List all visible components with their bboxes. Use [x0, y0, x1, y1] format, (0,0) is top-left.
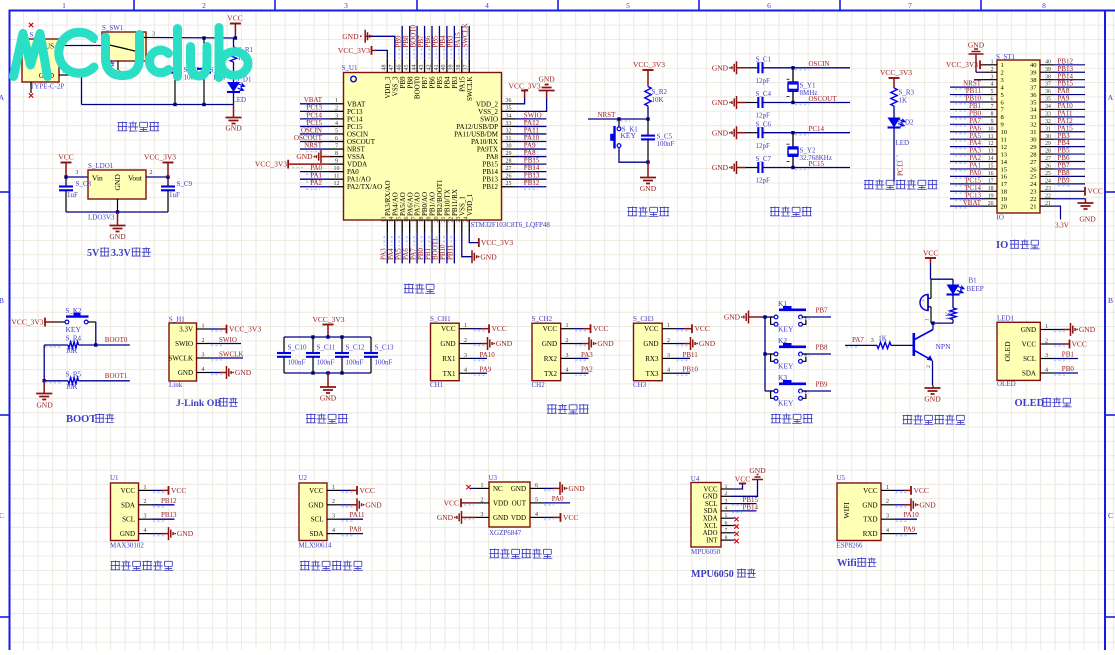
H1 pin1 wire to VCC_3V3: [210, 328, 219, 330]
svg-text:36: 36: [506, 98, 512, 104]
U1 pin 8 VSSA: [330, 156, 344, 158]
CH2 wire/net PA3: [574, 357, 589, 359]
svg-text:PB13: PB13: [161, 511, 177, 519]
U5 VCC flag: [895, 489, 905, 491]
wire/net PA7 (ST1 left): [950, 123, 984, 125]
svg-text:17: 17: [1001, 181, 1008, 188]
CH1 GND: [473, 343, 482, 345]
svg-text:NPN: NPN: [936, 342, 952, 351]
alarm ground: [932, 385, 934, 388]
caption 串口电路: [547, 404, 557, 414]
ST1 pin3 stub wire: [974, 79, 984, 81]
U5 wire/net PA9: [895, 533, 918, 535]
svg-text:35: 35: [506, 106, 512, 112]
svg-text:PB9: PB9: [816, 381, 829, 389]
svg-text:22: 22: [1030, 196, 1037, 203]
svg-text:100nF: 100nF: [317, 359, 335, 367]
svg-text:34: 34: [1045, 104, 1051, 110]
svg-text:12: 12: [334, 181, 340, 187]
wire/net PC13: [300, 110, 330, 112]
svg-text:26: 26: [506, 174, 512, 180]
svg-text:100nF: 100nF: [288, 359, 306, 367]
ST1 pin 16: [984, 175, 998, 177]
wire/net PA8 (ST1 right): [1054, 94, 1086, 96]
wire/net PB7 (ST1 right): [1054, 168, 1086, 170]
svg-text:4: 4: [1045, 367, 1048, 373]
module U4 MPU6050: [691, 483, 721, 548]
svg-text:46: 46: [397, 65, 403, 71]
U1 pin 5 OSCIN: [330, 133, 344, 135]
svg-text:1: 1: [332, 485, 335, 491]
wire/net PB13: [515, 178, 546, 180]
svg-text:PB9: PB9: [1058, 176, 1071, 184]
capacitor S_C10 100nF: [283, 337, 285, 353]
wire/net PA12: [515, 125, 546, 127]
svg-text:GND: GND: [320, 394, 337, 403]
svg-text:13: 13: [1001, 151, 1008, 158]
capacitor S_C13 100nF: [370, 337, 372, 353]
svg-text:S_CH2: S_CH2: [532, 315, 553, 323]
svg-text:12pF: 12pF: [756, 112, 771, 120]
wire/net PA5 (bottom): [401, 234, 403, 264]
capacitor S_C1 12pF: [732, 61, 737, 74]
svg-text:PA9: PA9: [904, 526, 916, 534]
svg-text:S_C11: S_C11: [317, 344, 336, 352]
module U2 MLX90614: [299, 483, 327, 541]
svg-text:3: 3: [1001, 77, 1004, 84]
svg-text:VCC_3V3: VCC_3V3: [946, 60, 978, 69]
svg-text:GND: GND: [511, 485, 526, 493]
wire/net PB1 (bottom): [431, 234, 433, 264]
header S_CH3 CH3: [634, 323, 663, 381]
svg-text:36: 36: [1045, 89, 1051, 95]
svg-text:RXD: RXD: [863, 530, 878, 538]
svg-text:SDA: SDA: [704, 508, 718, 515]
U2 wire/net PA8: [341, 533, 364, 535]
wire/net PC15: [300, 125, 330, 127]
module U3 XGZP6847 (pressure): [489, 482, 530, 527]
svg-text:GND: GND: [177, 529, 194, 538]
svg-text:GND: GND: [724, 313, 741, 322]
svg-text:GND: GND: [862, 501, 877, 509]
svg-text:2: 2: [202, 338, 205, 344]
svg-text:29: 29: [1045, 141, 1051, 147]
wire/net PB5 (ST1 right): [1054, 153, 1086, 155]
svg-text:3.3V: 3.3V: [111, 248, 132, 259]
U1 pin 6 OSCOUT: [330, 141, 344, 143]
svg-text:14: 14: [389, 217, 395, 223]
ST1 pin 39: [1040, 71, 1054, 73]
wire/net PB0 (ST1 left): [950, 116, 984, 118]
svg-text:32: 32: [506, 128, 512, 134]
svg-text:VCC_3V3: VCC_3V3: [255, 160, 287, 169]
svg-text:VCC: VCC: [644, 325, 659, 333]
svg-text:7: 7: [725, 528, 728, 534]
U1 bottom pin 13 PA3/RX/AO: [386, 220, 388, 234]
caption 心率检测模块: [111, 561, 121, 571]
MCU S_U1 STM32F103C8T6 LQFP48: [344, 73, 502, 221]
svg-text:CH3: CH3: [633, 381, 647, 389]
ST1 pin 5: [984, 94, 998, 96]
svg-text:OLED: OLED: [1015, 398, 1045, 409]
svg-text:GND: GND: [1079, 215, 1096, 224]
U1 VSS_2 pin35 to GND: [515, 98, 547, 111]
svg-text:10K: 10K: [66, 347, 78, 355]
wire/net OSCOUT: [300, 141, 330, 143]
svg-text:1uF: 1uF: [169, 191, 180, 199]
svg-text:Link: Link: [169, 381, 183, 389]
CH2 VCC flag: [574, 328, 583, 330]
svg-text:S_CH1: S_CH1: [430, 315, 451, 323]
svg-text:LED1: LED1: [997, 314, 1015, 322]
U1 pin 12 PA2/TX/AO: [330, 186, 344, 188]
svg-text:24: 24: [464, 217, 470, 223]
svg-text:21: 21: [1045, 201, 1051, 207]
connector S_T1 TYPE-C-2P: [22, 39, 59, 82]
svg-text:S_C13: S_C13: [375, 344, 395, 352]
reset ground: [647, 162, 649, 177]
svg-text:GND: GND: [712, 163, 729, 172]
svg-text:3: 3: [202, 352, 205, 358]
svg-text:PA2: PA2: [310, 179, 322, 187]
wire/net PB15: [515, 163, 546, 165]
svg-text:39: 39: [1045, 67, 1051, 73]
capacitor S_C7 12pF: [732, 161, 737, 174]
svg-text:32: 32: [1045, 119, 1051, 125]
svg-text:17: 17: [988, 178, 994, 184]
svg-text:S_C7: S_C7: [756, 155, 772, 163]
U1 pin 4 PC15: [330, 125, 344, 127]
svg-text:GND: GND: [538, 75, 555, 84]
caption 主芯片: [404, 284, 414, 294]
svg-text:16: 16: [988, 171, 994, 177]
svg-text:PC14: PC14: [809, 125, 825, 133]
U1 wire/net PB12: [152, 504, 175, 506]
wire/net PC14 (ST1 left): [950, 190, 984, 192]
wire/net PB12: [515, 186, 546, 188]
svg-text:19: 19: [426, 217, 432, 223]
svg-text:PA2/TX/AO: PA2/TX/AO: [347, 183, 382, 191]
pushbutton K2: [774, 352, 778, 356]
svg-text:OSCIN: OSCIN: [809, 60, 830, 68]
U5 GND: [895, 504, 905, 506]
svg-text:VCC: VCC: [309, 487, 324, 495]
svg-text:9: 9: [1001, 122, 1004, 129]
svg-text:3: 3: [335, 113, 338, 119]
svg-text:33: 33: [1030, 114, 1037, 121]
svg-text:1: 1: [335, 98, 338, 104]
U1 pin 25 PB12: [502, 186, 516, 188]
ST1 pin 13: [984, 153, 998, 155]
U1 top pin 46 PB9: [401, 59, 403, 73]
svg-text:U5: U5: [837, 474, 846, 482]
U1 pin 31 PA10/RX: [502, 141, 516, 143]
ST1 pin 2: [984, 71, 998, 73]
ST1 pin 15: [984, 168, 998, 170]
wire/net PA9 (ST1 right): [1054, 101, 1086, 103]
svg-text:3: 3: [991, 74, 994, 80]
wire/net SWCLK (top): [468, 26, 470, 59]
svg-text:7: 7: [991, 104, 994, 110]
svg-text:6: 6: [535, 483, 538, 489]
LED1 VCC flag: [1054, 343, 1064, 345]
header S_H1 Link: [169, 323, 197, 381]
svg-text:KEY: KEY: [621, 131, 637, 140]
svg-text:2: 2: [144, 499, 147, 505]
filter top rail: [284, 336, 371, 338]
svg-text:33: 33: [1045, 111, 1051, 117]
svg-text:12pF: 12pF: [756, 142, 771, 150]
wire/net NRST (ST1 left): [950, 86, 984, 88]
CH3 GND: [676, 343, 685, 345]
svg-text:GND: GND: [178, 369, 193, 377]
svg-text:ADO: ADO: [703, 530, 718, 537]
svg-text:35: 35: [1045, 97, 1051, 103]
svg-text:41: 41: [434, 65, 440, 71]
svg-text:VCC: VCC: [543, 325, 558, 333]
svg-text:PB7: PB7: [816, 307, 829, 315]
svg-text:45: 45: [404, 65, 410, 71]
svg-text:BOOT0: BOOT0: [105, 336, 128, 344]
svg-text:31: 31: [1045, 126, 1051, 132]
wire/net OSCIN: [793, 67, 850, 69]
U1 pin 7 NRST: [330, 148, 344, 150]
svg-text:6: 6: [725, 520, 728, 526]
svg-text:K1: K1: [778, 299, 787, 308]
svg-text:GND: GND: [643, 340, 658, 348]
svg-text:U1: U1: [110, 474, 119, 482]
svg-text:40: 40: [1045, 59, 1051, 65]
svg-text:6: 6: [335, 136, 338, 142]
svg-text:3: 3: [725, 498, 728, 504]
base wire / net PA7 with 1K resistor: [845, 344, 877, 346]
svg-text:MPU6050: MPU6050: [691, 569, 734, 580]
ST1 pin 21: [1040, 205, 1054, 207]
wire/net PC15: [793, 167, 850, 169]
svg-text:5: 5: [626, 1, 630, 10]
svg-text:1: 1: [991, 59, 994, 65]
ST1 pin 19: [984, 198, 998, 200]
svg-text:10K: 10K: [66, 383, 78, 391]
svg-text:5: 5: [535, 497, 538, 503]
svg-text:GND: GND: [342, 32, 359, 41]
svg-text:38: 38: [456, 65, 462, 71]
H1 pin3 wire/net SWCLK: [210, 357, 243, 359]
svg-text:PB12: PB12: [161, 497, 177, 505]
svg-text:Vin: Vin: [92, 174, 103, 183]
wire/net PC13 (run LED): [893, 128, 895, 183]
svg-text:GND: GND: [225, 124, 242, 133]
ST1 pin 25: [1040, 175, 1054, 177]
svg-text:21: 21: [441, 217, 447, 223]
U1 top pin 44 BOOT0: [416, 59, 418, 73]
U2 GND: [341, 504, 351, 506]
svg-text:13: 13: [382, 217, 388, 223]
svg-text:PB14: PB14: [743, 503, 759, 511]
wire K1 bottom: [619, 148, 648, 163]
ST1 pin 34: [1040, 108, 1054, 110]
svg-text:3: 3: [667, 353, 670, 359]
svg-text:1: 1: [202, 323, 205, 329]
U1 pin 32 PA11/USB/DM: [502, 133, 516, 135]
svg-text:13: 13: [988, 149, 994, 155]
svg-text:OUT: OUT: [512, 499, 527, 507]
U1 pin 2 PC13: [330, 110, 344, 112]
U1 top pin 39 PB3: [453, 59, 455, 73]
svg-text:2: 2: [335, 106, 338, 112]
U1 bottom pin 14 PA4/AO: [394, 220, 396, 234]
svg-text:25: 25: [506, 181, 512, 187]
svg-text:33: 33: [506, 121, 512, 127]
U1 GND: [152, 533, 162, 535]
svg-text:GND: GND: [493, 514, 508, 522]
U1 bottom pin 23 VSS_1: [461, 220, 463, 234]
svg-text:1: 1: [464, 323, 467, 329]
svg-text:42: 42: [426, 65, 432, 71]
svg-text:SCL: SCL: [705, 501, 717, 508]
svg-text:+: +: [922, 298, 925, 304]
svg-text:S_CH3: S_CH3: [633, 315, 654, 323]
ST1 pin 28: [1040, 153, 1054, 155]
svg-text:MAX30102: MAX30102: [110, 542, 144, 550]
svg-text:VCC: VCC: [227, 14, 242, 23]
svg-text:SWCLK: SWCLK: [466, 77, 474, 102]
svg-text:35: 35: [1030, 99, 1037, 106]
svg-text:25: 25: [1045, 171, 1051, 177]
svg-text:IO: IO: [996, 240, 1008, 251]
svg-text:29: 29: [506, 151, 512, 157]
svg-text:39: 39: [449, 65, 455, 71]
wire/net PA7 (bottom): [416, 234, 418, 264]
svg-text:K2: K2: [778, 336, 787, 345]
wire/net PB8: [804, 353, 807, 355]
LED1 GND: [1054, 329, 1064, 331]
svg-text:21: 21: [1030, 203, 1037, 210]
svg-text:6: 6: [991, 97, 994, 103]
T1 pin 2: [59, 74, 70, 76]
svg-text:23: 23: [1045, 186, 1051, 192]
svg-text:2: 2: [332, 499, 335, 505]
svg-text:Vout: Vout: [128, 174, 143, 183]
svg-text:1: 1: [481, 483, 484, 489]
svg-text:4: 4: [332, 528, 335, 534]
svg-text:1K: 1K: [878, 335, 887, 343]
svg-text:3: 3: [344, 1, 348, 10]
wire/net PA3 (ST1 left): [950, 153, 984, 155]
svg-text:SWIO: SWIO: [219, 336, 237, 344]
svg-text:PC13: PC13: [897, 160, 905, 176]
svg-text:B: B: [1108, 296, 1113, 305]
svg-text:S_R2: S_R2: [652, 88, 668, 96]
svg-text:XGZP6847: XGZP6847: [489, 529, 522, 537]
svg-text:4: 4: [991, 82, 994, 88]
svg-text:VCC: VCC: [121, 487, 136, 495]
svg-text:VCC_3V3: VCC_3V3: [481, 238, 513, 247]
svg-text:3: 3: [871, 338, 874, 344]
svg-text:CH2: CH2: [532, 381, 546, 389]
svg-text:3: 3: [332, 514, 335, 520]
U1 top pin 40 PB4: [446, 59, 448, 73]
U3 GND(3): [457, 511, 462, 524]
ST1 pin 11: [984, 138, 998, 140]
buttons ground: [744, 311, 749, 324]
svg-text:1uF: 1uF: [67, 191, 78, 199]
ST1 pin 10: [984, 131, 998, 133]
svg-text:100nF: 100nF: [346, 359, 364, 367]
svg-text:3: 3: [566, 353, 569, 359]
wire/net PA10: [515, 141, 546, 143]
svg-text:4: 4: [464, 368, 467, 374]
regulator S_LDO1 LDO3V3: [88, 170, 146, 199]
ST1 pin 14: [984, 161, 998, 163]
svg-text:PB8: PB8: [816, 344, 829, 352]
svg-text:19: 19: [1001, 196, 1008, 203]
capacitor S_C12 100nF: [341, 337, 343, 353]
svg-text:K3: K3: [778, 373, 787, 382]
header S_ST1 IO (2x20): [997, 60, 1040, 213]
svg-text:3.3V: 3.3V: [1055, 222, 1069, 230]
wire/net PC14: [793, 132, 850, 134]
svg-text:S_R4: S_R4: [66, 334, 82, 342]
button bus wire: [764, 317, 766, 391]
U4 pin 7 no-connect: [731, 532, 735, 534]
wire/net PA0: [300, 171, 330, 173]
svg-text:1K: 1K: [899, 97, 908, 105]
wire/net PA4 (bottom): [394, 234, 396, 264]
wire/net PB5 (top): [438, 26, 440, 59]
wire/net PB3 (ST1 right): [1054, 138, 1086, 140]
wire/net PB15 (ST1 right): [1054, 86, 1086, 88]
svg-text:10: 10: [334, 166, 340, 172]
svg-text:VCC: VCC: [1072, 340, 1087, 349]
svg-text:1: 1: [886, 485, 889, 491]
LED S_D2: [888, 118, 901, 128]
svg-text:2: 2: [926, 365, 932, 368]
ST1 pin 20: [984, 205, 998, 207]
wire/net PB6 (top): [431, 26, 433, 59]
svg-text:12pF: 12pF: [756, 177, 771, 185]
svg-text:5: 5: [335, 128, 338, 134]
svg-text:PB12: PB12: [482, 183, 498, 191]
svg-text:2: 2: [1045, 338, 1048, 344]
svg-text:8MHz: 8MHz: [800, 89, 818, 97]
ST1 pin 18: [984, 190, 998, 192]
module U5 ESP8266: [837, 483, 881, 541]
T1 shield pin with no-ERC cross: [30, 82, 32, 93]
svg-text:1: 1: [924, 318, 930, 321]
svg-text:GND: GND: [968, 41, 985, 50]
svg-text:11: 11: [988, 134, 994, 140]
svg-text:S_C6: S_C6: [756, 120, 772, 128]
pushbutton S_K1 KEY: [618, 119, 620, 127]
wire/net PC13 (ST1 left): [950, 198, 984, 200]
caption 声光报警电路: [903, 415, 913, 425]
svg-text:GND: GND: [1021, 326, 1036, 334]
svg-text:27: 27: [1030, 159, 1037, 166]
wire/net PB12 (ST1 right): [1054, 64, 1086, 66]
resistor S_R4 10K / net BOOT0: [44, 344, 68, 346]
svg-text:VDD: VDD: [493, 499, 508, 507]
svg-text:GND: GND: [703, 494, 718, 501]
wire/net PB7 (top): [424, 26, 426, 59]
svg-text:GND: GND: [712, 98, 729, 107]
U1 VDDA pin9 VCC_3V3: [289, 163, 330, 165]
svg-text:GND: GND: [749, 466, 766, 475]
svg-text:C: C: [0, 511, 4, 520]
svg-text:3: 3: [1045, 353, 1048, 359]
svg-text:40: 40: [1030, 62, 1037, 69]
svg-text:2: 2: [725, 491, 728, 497]
